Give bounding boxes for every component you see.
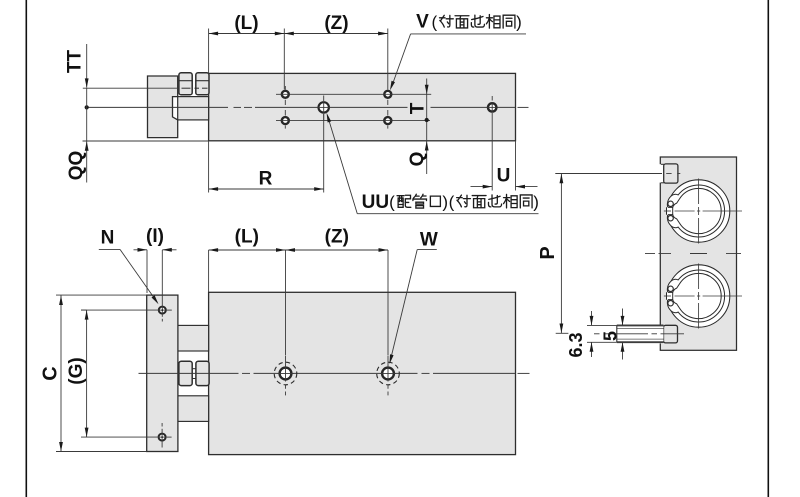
end view: mid parting centerline — [645, 253, 655, 255]
svg-text:6.3: 6.3 — [566, 332, 586, 357]
end view: adjuster rod — [617, 326, 664, 342]
dimension P — [555, 173, 662, 175]
svg-text:5: 5 — [601, 331, 621, 341]
svg-text:(: ( — [431, 13, 437, 32]
side view: port hole bottom-right — [384, 117, 391, 124]
end view: ring lug holes lower — [668, 286, 673, 291]
end view: ring lug holes upper — [668, 201, 673, 206]
end view: body — [660, 157, 736, 350]
dimension (L) top: dimension line — [209, 33, 285, 35]
dimension (L) bottom — [208, 250, 210, 292]
plan view: rod nut 2 — [196, 361, 209, 385]
end view: bore lower centerlines — [698, 264, 700, 290]
svg-text:Q: Q — [407, 152, 428, 167]
svg-text:V: V — [416, 12, 429, 33]
svg-text:): ) — [533, 192, 539, 211]
side view: port hole top-right V — [384, 91, 391, 98]
end view: retaining ring upper — [667, 185, 724, 237]
side view: rod boss between plate and body — [178, 97, 209, 120]
QQ extension line (body bottom) — [83, 140, 209, 142]
svg-text:(G): (G) — [66, 357, 87, 384]
right page border rule — [767, 0, 769, 497]
side view: center port hole UU — [323, 96, 325, 102]
svg-text:(L): (L) — [235, 227, 259, 248]
end view: bore circle lower — [667, 265, 729, 327]
dimension QQ — [86, 141, 88, 182]
side view: rod centerline through plate and nuts — [83, 87, 179, 89]
dimension (G) — [81, 309, 87, 311]
svg-text:W: W — [420, 230, 438, 251]
junction dot on centerline — [85, 105, 89, 109]
left page border rule — [25, 0, 27, 497]
plan view: port hole 1 with bolt circle — [285, 356, 287, 367]
dimension C — [56, 294, 147, 296]
label UU with leader — [357, 213, 538, 215]
plan view: end plate — [147, 295, 178, 451]
plan view: plate hole top (N) — [161, 250, 163, 306]
dimension TT — [86, 44, 88, 88]
plan view: guide rod lower — [178, 396, 209, 422]
svg-text:TT: TT — [64, 50, 85, 74]
svg-text:(L): (L) — [234, 13, 258, 34]
svg-text:(I): (I) — [146, 226, 164, 247]
dimension R — [208, 142, 210, 193]
plan view: guide rod upper — [178, 325, 209, 351]
svg-text:(Z): (Z) — [324, 13, 348, 34]
end view: top port tab — [658, 164, 665, 182]
plan view: rod nut 1 — [179, 361, 192, 385]
plan view: main centerline — [139, 372, 239, 374]
svg-text:UU: UU — [362, 192, 389, 213]
dimension (Z) top: dimension line — [284, 33, 387, 35]
dimension U — [491, 113, 493, 191]
dimension T / Q vertical chain — [426, 79, 428, 175]
plan view: plate hole bottom — [161, 423, 163, 427]
side view: end plate — [148, 76, 178, 138]
side view: rod nut 1 — [179, 73, 192, 95]
svg-text:R: R — [259, 169, 273, 190]
svg-text:P: P — [537, 246, 559, 259]
end view: bottom boss tab — [658, 325, 665, 343]
plan view: cylinder body — [209, 292, 516, 454]
side view: right pivot hole — [491, 96, 493, 101]
dimension (Z) bottom — [387, 250, 389, 355]
side view: rod nut 2 — [196, 73, 209, 95]
plan view: port hole 2 (W) with bolt circle — [387, 356, 389, 367]
end view: rod centerline — [594, 333, 600, 335]
svg-text:(: ( — [389, 192, 395, 211]
svg-text:): ) — [516, 13, 522, 32]
side view: cylinder body — [209, 73, 516, 140]
dimension 6.3 — [587, 324, 617, 326]
svg-text:C: C — [39, 366, 61, 380]
side view: port hole top-left — [282, 91, 289, 98]
end view: bore circle upper — [667, 180, 729, 242]
svg-text:): ) — [442, 192, 448, 211]
end view: retaining ring lower — [667, 270, 724, 322]
side view: main centerline — [87, 106, 228, 108]
svg-text:(Z): (Z) — [325, 227, 349, 248]
svg-text:QQ: QQ — [66, 151, 87, 181]
svg-text:(: ( — [449, 192, 455, 211]
svg-text:N: N — [101, 228, 115, 249]
end view: bore upper centerlines — [698, 179, 700, 205]
side view: port hole centerline col 1 — [284, 86, 286, 90]
side view: port hole bottom-left — [282, 117, 289, 124]
svg-text:U: U — [497, 166, 511, 187]
svg-text:T: T — [407, 102, 428, 114]
dimension 5 — [622, 309, 624, 326]
dimension (L) top: extension lines — [208, 29, 210, 74]
plan view: inter-nut rod — [192, 369, 196, 379]
side view: port row lines — [276, 93, 431, 95]
side view: port hole centerline col 2 (V) — [387, 100, 389, 105]
